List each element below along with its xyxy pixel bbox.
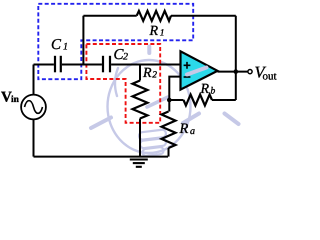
label R2 [142, 66, 157, 81]
wire: node A to R1 left [83, 15, 136, 17]
red dashed group box around C2 and R2 [86, 44, 160, 123]
capacitor C2 [103, 56, 110, 73]
resistor R1 [137, 11, 171, 21]
wire: op-amp output [218, 71, 248, 73]
svg-text:C: C [51, 37, 62, 53]
label C2 [114, 47, 129, 63]
label C1 [51, 37, 68, 53]
wire: bottom ground rail [34, 156, 169, 158]
svg-text:2: 2 [152, 71, 157, 81]
wire: source bottom lead [33, 119, 35, 156]
label Vout [255, 62, 277, 82]
wire: R1 right to output rail [171, 15, 236, 17]
watermark light bulb [91, 47, 239, 157]
source Vin (AC) [21, 95, 46, 120]
blue dashed group box around C1 and R1 [38, 4, 193, 79]
svg-text:R: R [142, 66, 152, 81]
node A: junction wire up to R1 [82, 16, 84, 65]
svg-text:out: out [263, 70, 277, 82]
svg-text:2: 2 [123, 51, 128, 62]
resistor R2 [133, 65, 148, 157]
wire: source top lead [33, 65, 35, 95]
op-amp U1 [181, 51, 218, 89]
wire: Rb right to output rail [212, 99, 236, 101]
capacitor C1 [55, 56, 61, 73]
svg-text:a: a [190, 126, 195, 137]
label Ra [179, 121, 196, 137]
ground [130, 160, 148, 167]
wire: right vertical rail (feedback) [235, 16, 237, 100]
label Rb [200, 82, 216, 97]
svg-text:1: 1 [160, 29, 165, 39]
svg-text:b: b [211, 87, 216, 97]
wire: feedback node to Rb [169, 99, 183, 101]
node feedback junction dot [167, 98, 172, 103]
label Vin [1, 90, 20, 106]
wire: inverting input to feedback node [169, 77, 180, 100]
wire: main input line Vin to C1 [34, 64, 54, 66]
wire: C2 to op-amp non-inverting input [111, 64, 180, 66]
svg-text:R: R [149, 24, 159, 39]
svg-text:R: R [200, 82, 210, 97]
svg-text:R: R [179, 121, 189, 137]
label R1 [149, 24, 165, 39]
wire: C1 to C2 [62, 64, 102, 66]
resistor Rb [184, 95, 213, 106]
resistor Ra [162, 100, 176, 157]
watermark ray over op-amp [187, 68, 207, 75]
terminal Vout [248, 70, 252, 74]
node output junction dot [234, 69, 239, 74]
svg-text:1: 1 [63, 41, 68, 52]
svg-text:in: in [11, 95, 20, 105]
